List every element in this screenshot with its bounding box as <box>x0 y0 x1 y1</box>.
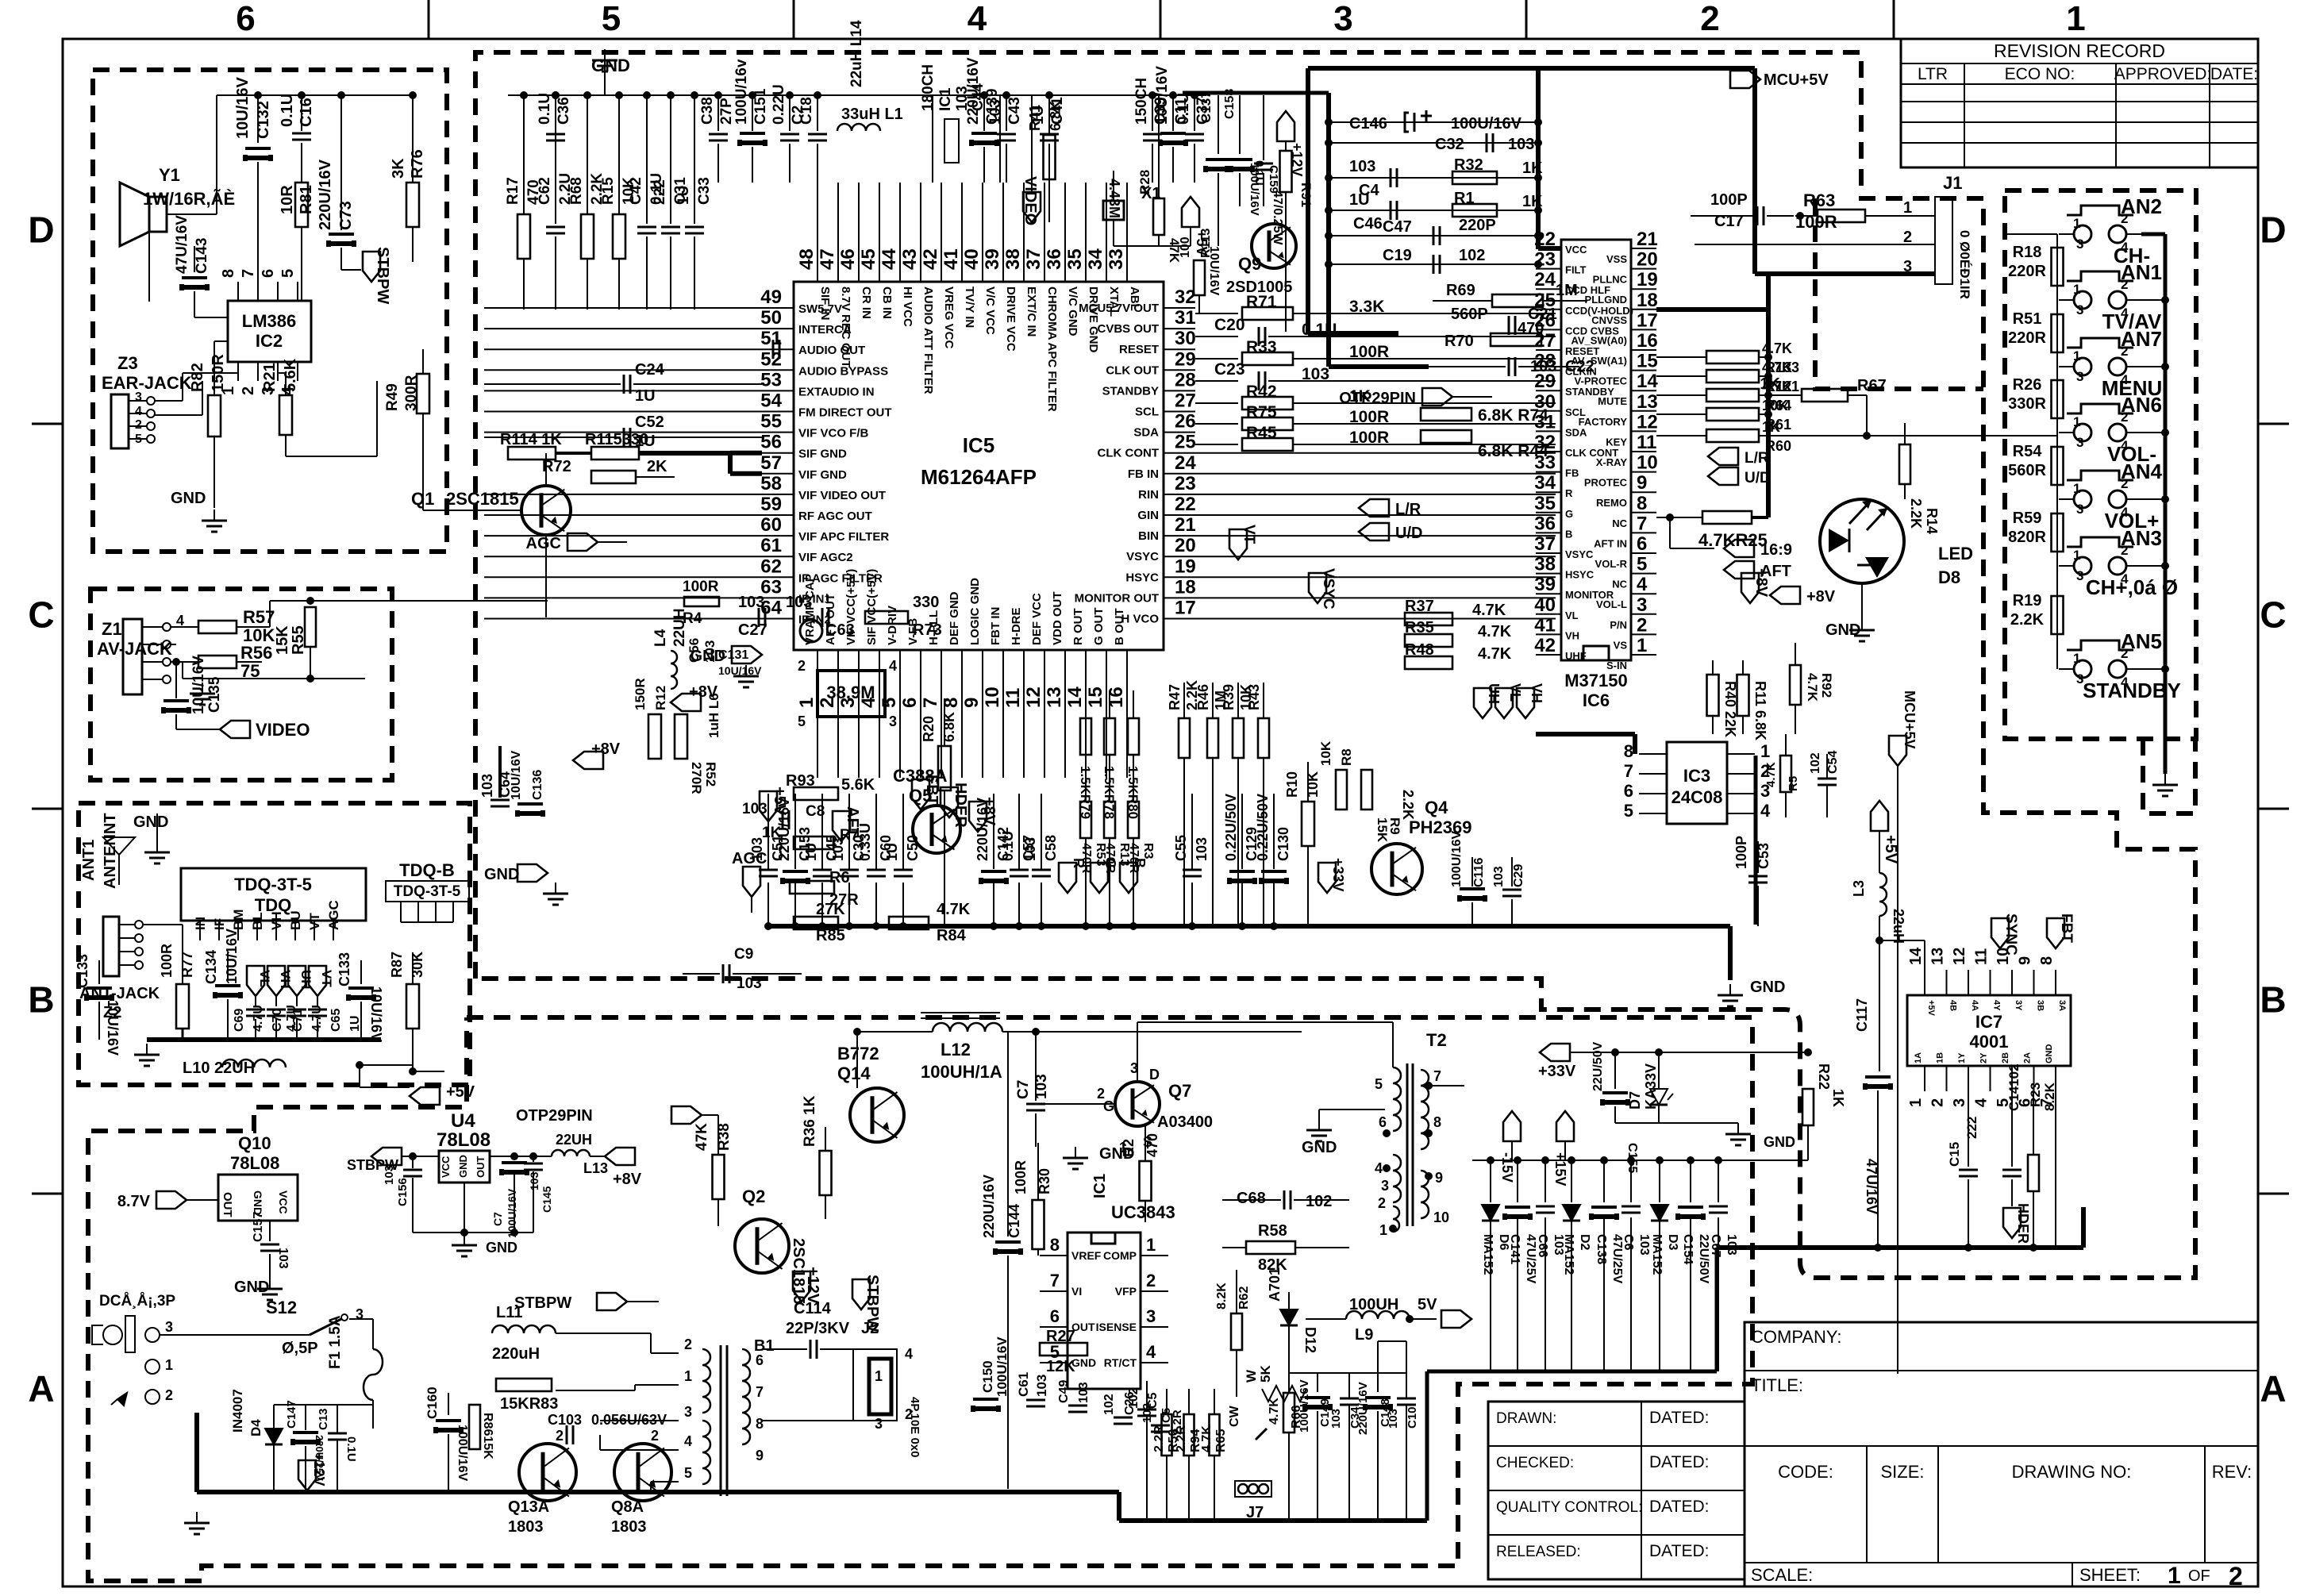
svg-text:MONITOR OUT: MONITOR OUT <box>1075 591 1159 605</box>
svg-text:1: 1 <box>2168 1563 2181 1589</box>
svg-text:SCALE:: SCALE: <box>1751 1565 1813 1585</box>
svg-text:+12V: +12V <box>804 1267 821 1305</box>
svg-text:CNVSS: CNVSS <box>1591 314 1627 326</box>
svg-text:9: 9 <box>1637 472 1647 494</box>
svg-text:40: 40 <box>961 248 983 270</box>
svg-text:2: 2 <box>240 387 257 395</box>
svg-text:DRAWN:: DRAWN: <box>1496 1410 1556 1427</box>
svg-text:1: 1 <box>1907 1098 1925 1107</box>
svg-text:REV:: REV: <box>2212 1462 2252 1482</box>
svg-text:35: 35 <box>1534 493 1556 514</box>
svg-text:29: 29 <box>1534 371 1556 392</box>
svg-text:RT/CT: RT/CT <box>1104 1356 1137 1369</box>
svg-text:R8615K: R8615K <box>481 1413 494 1459</box>
svg-text:SDA: SDA <box>1565 426 1587 438</box>
svg-text:VOL-R: VOL-R <box>1595 558 1628 570</box>
svg-text:4: 4 <box>1146 1342 1156 1362</box>
svg-text:24: 24 <box>1534 269 1556 290</box>
svg-text:VH: VH <box>278 970 293 989</box>
svg-text:7: 7 <box>1050 1271 1060 1290</box>
svg-text:2: 2 <box>135 418 142 432</box>
svg-text:OTP29PIN: OTP29PIN <box>516 1107 593 1125</box>
svg-text:C130: C130 <box>1275 827 1291 861</box>
svg-text:VIF AGC2: VIF AGC2 <box>798 551 853 564</box>
svg-text:D4: D4 <box>248 1419 264 1436</box>
svg-text:7: 7 <box>1637 513 1647 534</box>
svg-text:MA152: MA152 <box>1481 1234 1495 1275</box>
svg-text:GIN: GIN <box>1137 509 1159 522</box>
svg-text:42: 42 <box>920 248 941 270</box>
svg-text:7: 7 <box>920 698 941 708</box>
svg-text:R49: R49 <box>384 383 401 411</box>
svg-text:GND: GND <box>457 1155 469 1178</box>
svg-text:78L08: 78L08 <box>437 1129 490 1151</box>
svg-text:UH: UH <box>1486 683 1502 704</box>
svg-text:103: 103 <box>383 1165 396 1185</box>
svg-text:R77: R77 <box>179 952 195 978</box>
svg-text:C32: C32 <box>1435 136 1464 153</box>
svg-text:17: 17 <box>1175 598 1196 619</box>
svg-text:FM DIRECT OUT: FM DIRECT OUT <box>798 406 892 420</box>
svg-text:R18: R18 <box>2013 244 2042 261</box>
svg-text:C135: C135 <box>206 676 223 713</box>
svg-text:AV_SW(A0): AV_SW(A0) <box>1571 334 1627 346</box>
svg-text:U/D: U/D <box>1745 470 1771 486</box>
svg-text:VT: VT <box>319 970 334 987</box>
svg-text:0.22U/50V: 0.22U/50V <box>1223 794 1239 861</box>
svg-text:1A: 1A <box>1914 1052 1923 1063</box>
svg-text:32: 32 <box>1175 287 1196 308</box>
svg-text:M37150: M37150 <box>1564 671 1628 690</box>
svg-text:R20: R20 <box>921 716 937 742</box>
svg-text:270R: 270R <box>689 762 704 794</box>
svg-text:D7: D7 <box>1627 1091 1643 1110</box>
svg-text:UH: UH <box>298 970 314 990</box>
svg-text:TDQ-3T-5: TDQ-3T-5 <box>394 883 461 900</box>
svg-text:3B: 3B <box>2036 1000 2045 1011</box>
svg-text:+5V: +5V <box>1926 1000 1936 1017</box>
svg-text:FACTORY: FACTORY <box>1579 416 1628 428</box>
svg-text:1: 1 <box>684 1368 692 1384</box>
svg-text:15: 15 <box>1085 686 1106 708</box>
svg-text:VS: VS <box>1614 639 1628 651</box>
svg-text:1uH L6: 1uH L6 <box>706 693 721 738</box>
svg-text:R43: R43 <box>1246 684 1262 710</box>
svg-text:14: 14 <box>1637 371 1658 392</box>
svg-text:5.6K: 5.6K <box>841 776 875 794</box>
svg-text:25: 25 <box>1534 290 1556 311</box>
svg-text:GND: GND <box>133 813 168 831</box>
svg-text:20: 20 <box>1175 535 1196 556</box>
svg-text:1: 1 <box>2073 414 2080 429</box>
svg-text:S12: S12 <box>266 1298 297 1317</box>
svg-text:3: 3 <box>1381 1178 1389 1194</box>
svg-text:R1: R1 <box>1454 190 1475 207</box>
svg-text:8: 8 <box>1637 493 1647 514</box>
svg-text:2: 2 <box>1929 1098 1947 1107</box>
svg-text:VSYC: VSYC <box>1320 568 1337 610</box>
svg-text:4: 4 <box>684 1433 692 1449</box>
svg-text:U4: U4 <box>451 1110 475 1132</box>
svg-text:VI: VI <box>1071 1285 1082 1298</box>
svg-text:Q4: Q4 <box>1425 798 1448 817</box>
svg-text:47/0.25W: 47/0.25W <box>1271 190 1284 245</box>
svg-text:VSS: VSS <box>1606 253 1627 265</box>
svg-text:22UH: 22UH <box>671 608 688 647</box>
svg-text:TDQ-3T-5: TDQ-3T-5 <box>234 875 312 894</box>
svg-text:R19: R19 <box>2013 592 2042 610</box>
svg-text:C54: C54 <box>1826 751 1840 774</box>
svg-text:W: W <box>1244 1369 1259 1383</box>
svg-text:10U/16V: 10U/16V <box>234 77 252 139</box>
svg-text:11: 11 <box>1637 432 1656 453</box>
svg-text:R59: R59 <box>2013 510 2042 527</box>
svg-text:16: 16 <box>1637 330 1658 352</box>
svg-text:L12: L12 <box>941 1040 971 1060</box>
svg-text:C38: C38 <box>699 97 716 125</box>
svg-text:R36 1K: R36 1K <box>802 1095 818 1147</box>
svg-text:R22: R22 <box>1816 1063 1832 1090</box>
svg-text:J2: J2 <box>861 1320 879 1337</box>
svg-text:59: 59 <box>760 494 782 515</box>
svg-text:1: 1 <box>2073 651 2080 666</box>
svg-text:IN: IN <box>193 917 208 930</box>
svg-text:B772: B772 <box>837 1044 879 1063</box>
svg-text:RIN: RIN <box>1138 488 1159 502</box>
svg-text:100UH/1A: 100UH/1A <box>921 1062 1002 1082</box>
svg-text:3: 3 <box>1146 1306 1156 1326</box>
svg-text:1Y: 1Y <box>1957 1052 1967 1063</box>
svg-text:3: 3 <box>165 1319 173 1335</box>
svg-text:L9: L9 <box>1355 1326 1373 1344</box>
svg-text:R3: R3 <box>1141 843 1155 860</box>
svg-text:22UH: 22UH <box>556 1132 592 1148</box>
svg-text:24C08: 24C08 <box>1671 787 1723 807</box>
svg-text:IC6: IC6 <box>1583 690 1610 710</box>
svg-text:VL: VL <box>1507 683 1523 702</box>
svg-text:40: 40 <box>1534 594 1556 616</box>
svg-text:HDER: HDER <box>952 783 969 828</box>
svg-text:X-RAY: X-RAY <box>1596 456 1628 468</box>
svg-text:1: 1 <box>1146 1235 1156 1255</box>
svg-text:4.7K: 4.7K <box>1478 623 1512 640</box>
svg-text:8.2K: 8.2K <box>1215 1283 1229 1309</box>
svg-text:R82: R82 <box>189 363 206 392</box>
svg-text:47U/16V: 47U/16V <box>174 215 190 274</box>
svg-text:+8V: +8V <box>591 740 621 758</box>
svg-text:0.1U: 0.1U <box>344 1436 358 1462</box>
svg-text:1: 1 <box>2066 0 2085 38</box>
svg-text:IC5: IC5 <box>963 433 994 457</box>
svg-text:R75: R75 <box>1246 403 1277 421</box>
svg-text:Q7: Q7 <box>1168 1081 1191 1101</box>
svg-text:R6: R6 <box>829 869 850 886</box>
svg-text:R67: R67 <box>1857 377 1887 394</box>
svg-text:12: 12 <box>1951 948 1968 965</box>
svg-text:820R: 820R <box>2008 529 2046 546</box>
svg-text:D: D <box>28 210 54 251</box>
svg-text:1U: 1U <box>635 387 656 405</box>
svg-text:35: 35 <box>1064 248 1086 270</box>
svg-text:MA152: MA152 <box>1650 1234 1664 1275</box>
svg-text:R39: R39 <box>1221 684 1237 710</box>
svg-text:R10: R10 <box>1284 771 1300 798</box>
svg-text:1K: 1K <box>1522 160 1543 177</box>
svg-text:12: 12 <box>1023 686 1044 708</box>
svg-text:H-DRE: H-DRE <box>1010 608 1023 646</box>
svg-text:AN7: AN7 <box>2121 327 2162 351</box>
svg-text:+5V: +5V <box>446 1083 475 1101</box>
svg-text:CLK CONT: CLK CONT <box>1098 447 1160 460</box>
svg-text:220U/16V: 220U/16V <box>981 1175 997 1238</box>
svg-text:36: 36 <box>1044 248 1065 270</box>
svg-text:47K: 47K <box>694 1123 710 1151</box>
svg-text:FB: FB <box>1565 467 1579 479</box>
svg-text:C5: C5 <box>1146 1392 1160 1409</box>
svg-text:V/C GND: V/C GND <box>1066 287 1079 337</box>
svg-text:4Y: 4Y <box>1992 1000 2002 1011</box>
svg-text:FB IN: FB IN <box>1128 467 1159 481</box>
svg-text:CVBS OUT: CVBS OUT <box>1097 322 1159 336</box>
svg-text:2: 2 <box>2229 1562 2243 1590</box>
svg-text:D8: D8 <box>1938 567 1960 587</box>
svg-text:C154: C154 <box>1681 1234 1695 1264</box>
svg-text:D2: D2 <box>1578 1234 1591 1251</box>
svg-text:COMP: COMP <box>1103 1249 1137 1262</box>
svg-text:103: 103 <box>1329 1409 1343 1429</box>
svg-text:FBT: FBT <box>2058 913 2075 943</box>
svg-text:220U/16V: 220U/16V <box>317 159 334 230</box>
svg-text:22U/50V: 22U/50V <box>1591 1041 1605 1091</box>
svg-text:2: 2 <box>1097 1086 1105 1102</box>
svg-text:50: 50 <box>760 307 782 329</box>
svg-text:+12V: +12V <box>311 1452 327 1486</box>
svg-text:R12: R12 <box>653 686 668 710</box>
svg-text:COMPANY:: COMPANY: <box>1751 1327 1842 1347</box>
svg-text:HSYC: HSYC <box>1125 571 1159 584</box>
svg-text:103: 103 <box>738 594 764 611</box>
svg-text:18: 18 <box>1637 290 1658 311</box>
svg-text:C44: C44 <box>970 83 987 111</box>
svg-text:LTR: LTR <box>1918 65 1948 83</box>
svg-text:ABL: ABL <box>1128 287 1141 311</box>
svg-text:C143: C143 <box>194 238 210 274</box>
svg-text:10: 10 <box>1433 1209 1449 1225</box>
svg-text:C61: C61 <box>1016 1372 1031 1397</box>
svg-text:10U/16V: 10U/16V <box>1154 66 1171 125</box>
svg-text:GND: GND <box>234 1279 269 1296</box>
svg-text:18: 18 <box>1175 576 1196 598</box>
svg-text:KEY: KEY <box>1606 436 1627 448</box>
svg-text:DCÅ¸Å¡,3P: DCÅ¸Å¡,3P <box>99 1293 175 1309</box>
svg-text:3: 3 <box>889 713 897 729</box>
svg-text:1: 1 <box>1903 199 1912 217</box>
svg-text:C133: C133 <box>337 952 352 986</box>
svg-text:C47: C47 <box>1383 218 1412 236</box>
svg-text:19: 19 <box>1637 269 1658 290</box>
svg-text:5: 5 <box>798 713 806 729</box>
svg-text:41: 41 <box>1534 614 1556 636</box>
svg-text:R69: R69 <box>1446 282 1475 299</box>
svg-text:100U/16V: 100U/16V <box>1451 115 1522 133</box>
svg-text:4: 4 <box>889 658 897 674</box>
svg-text:Y1: Y1 <box>159 165 180 185</box>
svg-text:4.7K: 4.7K <box>1478 645 1512 663</box>
svg-text:3A: 3A <box>2057 1000 2067 1011</box>
svg-text:100P: 100P <box>1733 836 1749 869</box>
svg-text:1: 1 <box>1637 635 1647 656</box>
svg-text:VREG VCC: VREG VCC <box>942 287 956 349</box>
svg-text:HDER: HDER <box>2015 1203 2031 1244</box>
svg-text:C145: C145 <box>540 1186 553 1213</box>
svg-text:UHF: UHF <box>1565 650 1587 662</box>
svg-text:10U/16V: 10U/16V <box>105 1000 121 1056</box>
svg-text:J7: J7 <box>1246 1504 1264 1521</box>
svg-text:2B: 2B <box>2001 1052 2010 1063</box>
svg-text:STBPW: STBPW <box>374 247 391 304</box>
svg-text:1: 1 <box>1760 741 1770 761</box>
svg-text:C58: C58 <box>1043 835 1059 861</box>
svg-text:47U/25V: 47U/25V <box>1524 1234 1537 1284</box>
svg-text:CLK OUT: CLK OUT <box>1106 363 1159 377</box>
svg-text:42: 42 <box>1534 635 1556 656</box>
svg-text:220uH: 220uH <box>492 1345 540 1363</box>
svg-text:C141: C141 <box>1508 1234 1521 1264</box>
svg-text:R15: R15 <box>600 177 617 205</box>
svg-text:12: 12 <box>1637 411 1658 433</box>
svg-text:150CH: 150CH <box>1133 78 1150 125</box>
svg-text:ISENSE: ISENSE <box>1096 1321 1137 1333</box>
svg-text:C136: C136 <box>531 770 544 800</box>
svg-text:3: 3 <box>1951 1098 1968 1107</box>
svg-text:11: 11 <box>1002 688 1024 708</box>
svg-text:8.7V REC OUT: 8.7V REC OUT <box>839 287 852 368</box>
svg-text:27P: 27P <box>718 98 735 125</box>
svg-text:0.1U: 0.1U <box>537 93 553 125</box>
svg-text:R: R <box>1565 487 1573 499</box>
svg-text:12K: 12K <box>1046 1358 1075 1375</box>
svg-text:R2: R2 <box>1121 1139 1137 1157</box>
svg-text:VREF: VREF <box>1071 1249 1102 1262</box>
svg-text:20: 20 <box>1637 249 1658 271</box>
svg-text:G OUT: G OUT <box>1092 608 1106 646</box>
svg-text:R5: R5 <box>1787 776 1800 791</box>
svg-text:Q14: Q14 <box>837 1063 871 1083</box>
svg-text:2: 2 <box>1146 1271 1156 1290</box>
svg-text:R71: R71 <box>1246 293 1277 311</box>
svg-text:62: 62 <box>760 556 782 577</box>
svg-text:R27: R27 <box>1046 1328 1075 1345</box>
svg-text:2: 2 <box>1903 229 1912 246</box>
svg-text:C43: C43 <box>1006 97 1023 125</box>
svg-text:IC2: IC2 <box>256 331 283 351</box>
svg-text:4.7U: 4.7U <box>252 1005 265 1032</box>
svg-text:103: 103 <box>786 594 812 611</box>
svg-text:+8V: +8V <box>613 1171 642 1188</box>
svg-text:1: 1 <box>796 698 817 708</box>
svg-text:38: 38 <box>1002 248 1024 270</box>
svg-text:9: 9 <box>2017 956 2034 965</box>
svg-text:LM386: LM386 <box>242 311 296 331</box>
svg-text:6: 6 <box>756 1352 764 1368</box>
svg-text:2.2K: 2.2K <box>2010 611 2045 629</box>
svg-text:C20: C20 <box>1214 316 1245 334</box>
svg-text:100U/16V: 100U/16V <box>994 1336 1010 1397</box>
svg-text:LOGIC GND: LOGIC GND <box>968 578 982 645</box>
svg-text:C146: C146 <box>1349 115 1387 133</box>
svg-text:XTAL: XTAL <box>1107 287 1121 317</box>
svg-text:8: 8 <box>1050 1235 1060 1255</box>
svg-text:5: 5 <box>279 269 297 278</box>
svg-text:103: 103 <box>1492 866 1506 887</box>
svg-text:DATE:: DATE: <box>2210 65 2258 83</box>
svg-text:BM: BM <box>231 910 246 930</box>
svg-text:PROTEC: PROTEC <box>1584 477 1628 489</box>
svg-text:7: 7 <box>756 1384 764 1400</box>
svg-text:R92: R92 <box>1819 673 1834 698</box>
svg-text:R33: R33 <box>1246 338 1277 356</box>
svg-text:1803: 1803 <box>611 1518 647 1536</box>
svg-text:SHEET:: SHEET: <box>2079 1565 2141 1585</box>
svg-text:22: 22 <box>1534 229 1556 250</box>
svg-text:C: C <box>2260 594 2286 636</box>
svg-text:1: 1 <box>2073 216 2080 231</box>
svg-text:2: 2 <box>1637 614 1647 636</box>
svg-text:C55: C55 <box>1173 835 1189 861</box>
svg-text:10U/16V: 10U/16V <box>368 986 384 1042</box>
svg-text:Q1: Q1 <box>411 489 434 509</box>
svg-text:2: 2 <box>651 1428 659 1444</box>
svg-text:78L08: 78L08 <box>230 1153 279 1173</box>
svg-text:C18: C18 <box>798 97 815 125</box>
svg-text:2: 2 <box>1760 761 1770 781</box>
svg-text:M61264AFP: M61264AFP <box>921 465 1037 489</box>
svg-text:AN4: AN4 <box>2121 460 2163 483</box>
svg-text:100U/16v: 100U/16v <box>733 59 750 125</box>
svg-text:MUTE: MUTE <box>1598 395 1627 407</box>
svg-text:GND: GND <box>1750 979 1785 996</box>
svg-text:33: 33 <box>1534 452 1556 474</box>
svg-text:23: 23 <box>1175 473 1196 494</box>
svg-text:6: 6 <box>1637 533 1647 555</box>
svg-text:DEF GND: DEF GND <box>948 591 961 645</box>
svg-text:C66: C66 <box>1536 1234 1549 1257</box>
svg-text:C9: C9 <box>734 946 753 963</box>
svg-text:NC: NC <box>1612 517 1627 529</box>
svg-text:C69: C69 <box>233 1009 246 1032</box>
svg-text:CR IN: CR IN <box>860 287 873 319</box>
svg-text:47: 47 <box>817 248 838 270</box>
svg-text:10U/16V: 10U/16V <box>190 656 207 714</box>
svg-text:1K: 1K <box>1830 1089 1846 1107</box>
svg-text:100: 100 <box>1179 237 1192 258</box>
svg-text:57: 57 <box>760 452 782 474</box>
svg-text:B: B <box>28 979 54 1021</box>
svg-text:C56: C56 <box>687 638 702 663</box>
svg-text:56: 56 <box>760 432 782 453</box>
svg-text:R: R <box>1071 858 1087 868</box>
svg-text:31: 31 <box>1175 307 1196 329</box>
svg-text:C49: C49 <box>1057 1380 1071 1403</box>
svg-text:C13: C13 <box>317 1408 330 1430</box>
svg-text:PLLGND: PLLGND <box>1585 294 1627 306</box>
svg-text:103: 103 <box>1022 837 1038 861</box>
svg-text:VOL-L: VOL-L <box>1596 598 1627 610</box>
svg-text:IF: IF <box>212 918 227 930</box>
svg-text:OF: OF <box>2188 1567 2210 1585</box>
svg-text:BIN: BIN <box>1138 529 1159 543</box>
svg-text:AN1: AN1 <box>2121 260 2162 284</box>
